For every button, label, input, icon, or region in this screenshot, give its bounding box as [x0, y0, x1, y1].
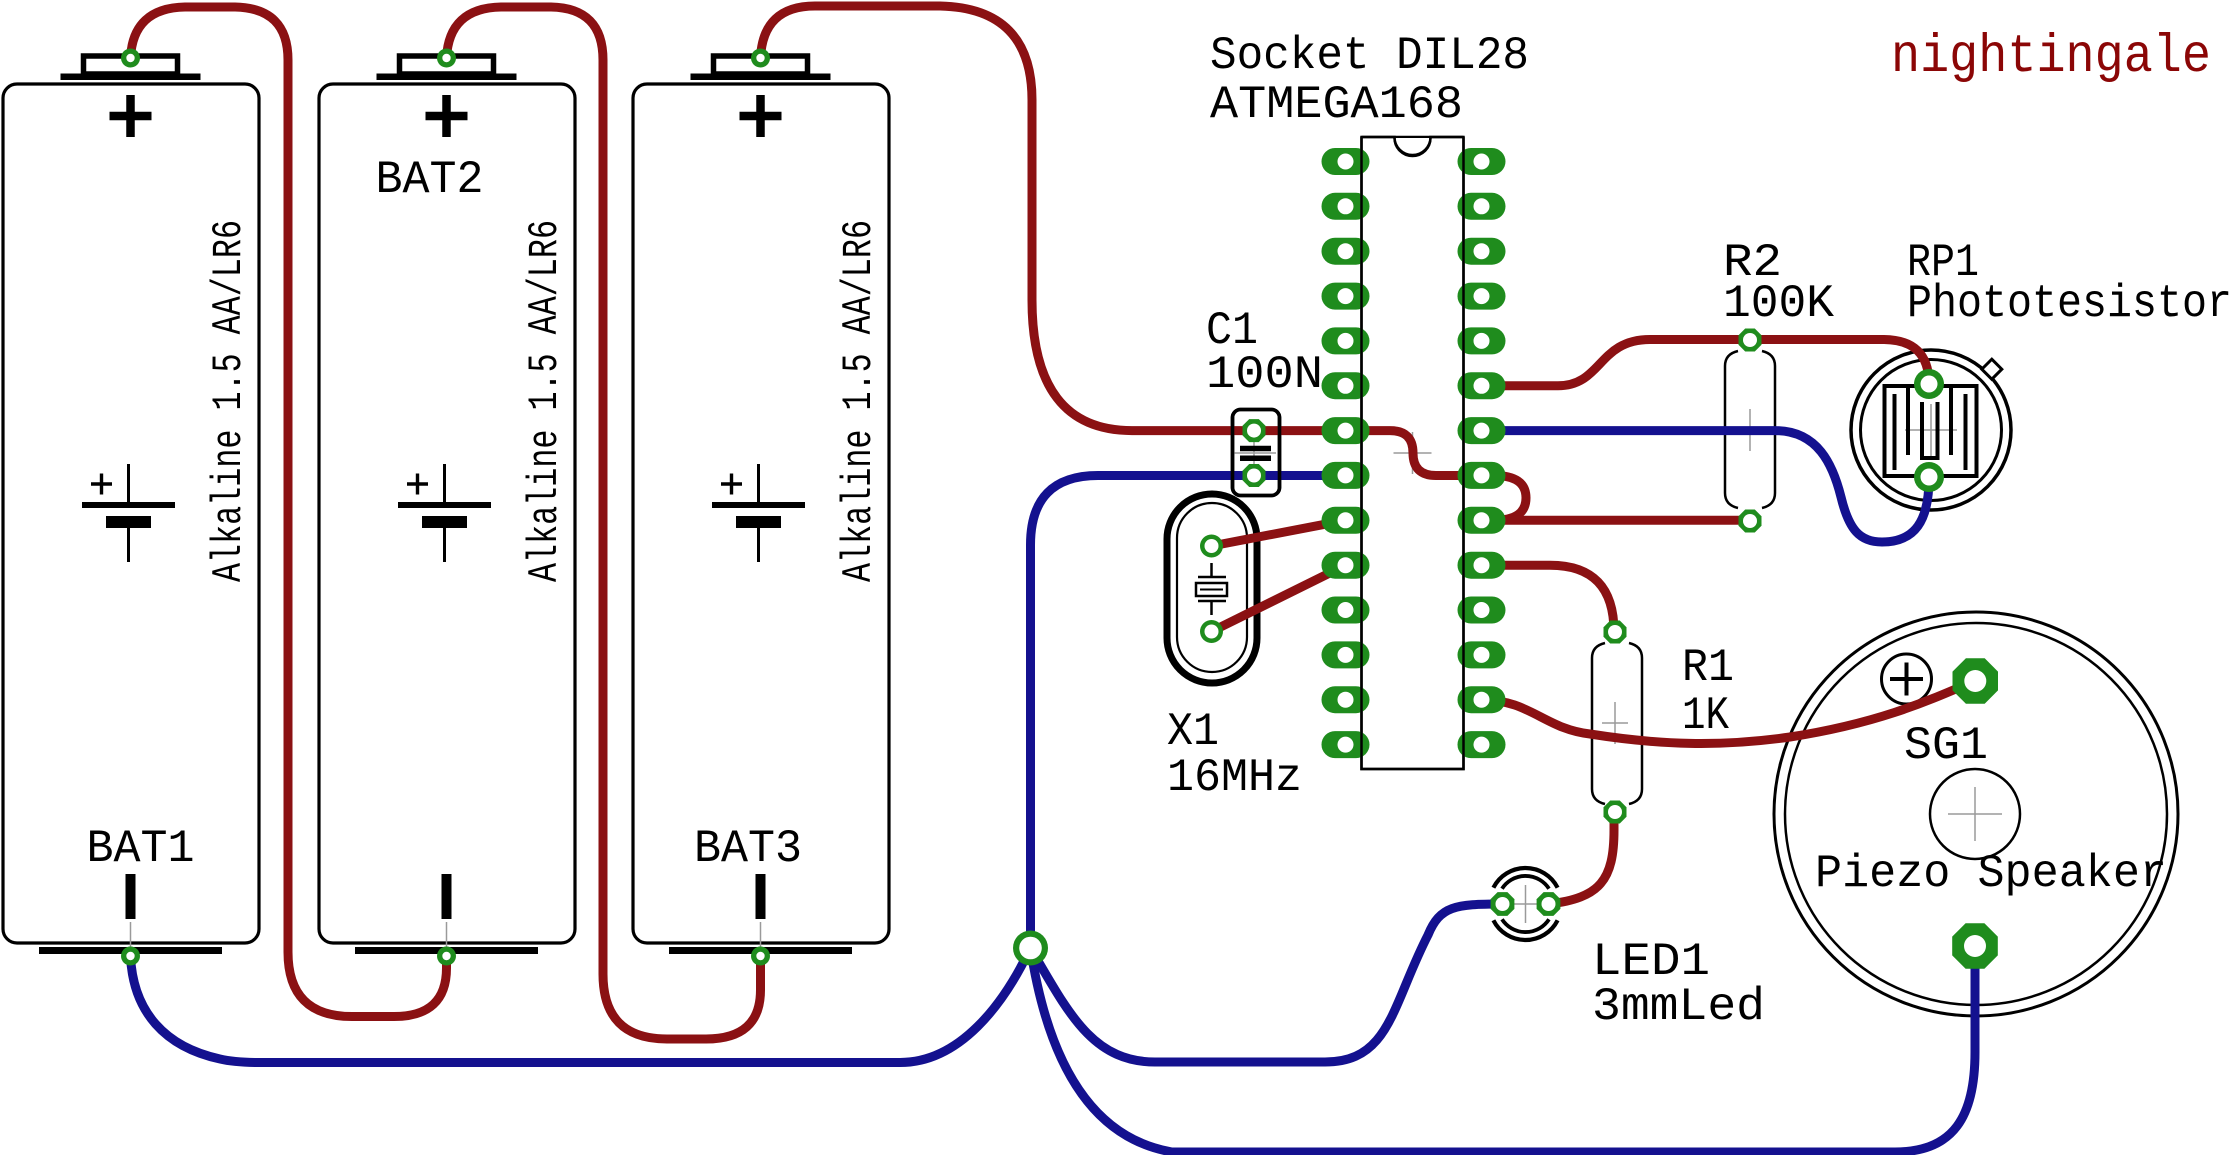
IC socket pin 23 pad — [1458, 372, 1506, 399]
IC socket outline redraw — [1362, 137, 1464, 769]
IC socket pin 28 pad — [1458, 148, 1506, 175]
battery BAT1 minus mark — [126, 874, 136, 919]
battery BAT3 body — [633, 84, 889, 943]
IC socket notch — [1395, 138, 1431, 156]
IC socket pin 19 pad — [1458, 552, 1506, 579]
resistor R2 body brackets — [1725, 351, 1738, 508]
battery BAT2 top cap bar — [377, 74, 517, 81]
pad X1 bottom — [1200, 620, 1223, 643]
svg-text:Piezo Speaker: Piezo Speaker — [1815, 848, 2167, 900]
pad RP1 top — [1914, 369, 1944, 399]
svg-text:Phototesistor: Phototesistor — [1907, 278, 2232, 330]
pad C1 top — [1243, 419, 1266, 442]
svg-text:Socket DIL28: Socket DIL28 — [1210, 30, 1529, 82]
wire red BAT3+ to C1/IC pin7 — [761, 6, 1482, 476]
svg-text:BAT3: BAT3 — [694, 823, 802, 875]
photoresistor RP1 outer circle — [1851, 350, 2011, 510]
battery BAT1 plus mark — [110, 95, 152, 137]
IC socket pin 6 pad — [1322, 372, 1370, 399]
wire red IC to R2 top — [1482, 340, 1751, 386]
pad speaker minus — [1952, 923, 1998, 969]
pad X1 top — [1200, 535, 1223, 558]
svg-text:SG1: SG1 — [1904, 720, 1988, 772]
IC socket pin 5 pad — [1322, 327, 1370, 354]
svg-text:100K: 100K — [1723, 278, 1834, 330]
capacitor C1 plates — [1240, 449, 1271, 459]
IC socket pin 25 pad — [1458, 283, 1506, 310]
speaker SG1 outer circle — [1774, 612, 2178, 1016]
svg-text:X1: X1 — [1167, 706, 1219, 758]
IC socket pin 26 pad — [1458, 238, 1506, 265]
IC socket pin 3 pad — [1322, 238, 1370, 265]
wire blue node to LED1 left — [1031, 904, 1503, 1062]
pad BAT2- — [437, 947, 456, 966]
pad BAT1- — [121, 947, 140, 966]
pad BAT3+ — [751, 49, 770, 68]
battery BAT3 bottom cap bar — [669, 947, 852, 954]
svg-text:Alkaline 1.5 AA/LR6: Alkaline 1.5 AA/LR6 — [521, 220, 569, 582]
svg-text:1K: 1K — [1682, 690, 1729, 742]
IC socket pin 20 pad — [1458, 507, 1506, 534]
svg-text:100N: 100N — [1206, 349, 1323, 401]
pad C1 bottom — [1243, 464, 1266, 487]
battery BAT1 body — [3, 84, 259, 943]
wire red IC right u-turn — [1482, 476, 1527, 521]
IC socket pin 21 pad — [1458, 462, 1506, 489]
wire red IC to R2 bottom — [1482, 516, 1751, 525]
IC socket pin 4 pad — [1322, 283, 1370, 310]
svg-text:R1: R1 — [1682, 642, 1734, 694]
IC socket pin 13 pad — [1322, 686, 1370, 713]
wire red BAT1+ to BAT2- — [131, 7, 447, 1017]
speaker SG1 center circle — [1930, 769, 2020, 859]
svg-text:3mmLed: 3mmLed — [1592, 981, 1765, 1033]
IC socket pin 9 pad — [1322, 507, 1370, 534]
crystal X1 symbol — [1196, 563, 1227, 615]
pad R2 bottom — [1739, 510, 1762, 533]
battery BAT2 cell symbol — [398, 464, 491, 562]
IC socket pin 22 pad — [1458, 417, 1506, 444]
battery BAT3 top terminal — [714, 56, 808, 74]
photoresistor RP1 inner circle — [1861, 360, 2002, 501]
pad R2 top — [1739, 329, 1762, 352]
pad speaker plus — [1953, 658, 1999, 704]
svg-text:Alkaline 1.5 AA/LR6: Alkaline 1.5 AA/LR6 — [205, 220, 253, 582]
crystal X1 inner outline — [1177, 503, 1247, 672]
IC socket pin 10 pad — [1322, 552, 1370, 579]
wire red X1 top to IC pin — [1212, 520, 1346, 546]
IC socket pin 17 pad — [1458, 641, 1506, 668]
IC socket pin 12 pad — [1322, 641, 1370, 668]
pad R1 top — [1604, 621, 1627, 644]
battery BAT3 plus mark — [740, 95, 782, 137]
battery BAT1 cell symbol — [82, 464, 175, 562]
photoresistor RP1 crosshair — [1905, 404, 1957, 456]
pad BAT3- — [751, 947, 770, 966]
wire blue node up to C1 bottom and IC pin — [1031, 476, 1346, 949]
IC socket pin 15 pad — [1458, 731, 1506, 758]
wire blue IC pin to RP1 bottom — [1482, 431, 1930, 542]
svg-text:nightingale: nightingale — [1891, 27, 2211, 88]
IC socket pin 18 pad — [1458, 597, 1506, 624]
photoresistor RP1 tab — [1982, 359, 2002, 379]
speaker SG1 plus circle — [1882, 654, 1932, 704]
IC socket pin 11 pad — [1322, 597, 1370, 624]
svg-text:Alkaline 1.5 AA/LR6: Alkaline 1.5 AA/LR6 — [835, 220, 883, 582]
IC socket pin 27 pad — [1458, 193, 1506, 220]
photoresistor RP1 serpentine — [1885, 386, 1977, 476]
battery BAT3 crosshair bottom — [760, 922, 762, 952]
IC socket pin 14 pad — [1322, 731, 1370, 758]
LED1 crosshair — [1508, 885, 1544, 923]
IC socket pin 24 pad — [1458, 327, 1506, 354]
pad BAT1+ — [121, 49, 140, 68]
wire blue BAT1- to node — [131, 948, 1031, 1063]
pad RP1 bottom — [1914, 462, 1944, 492]
svg-text:BAT2: BAT2 — [376, 154, 484, 206]
capacitor C1 body — [1233, 410, 1280, 496]
wire red R2 top to RP1 top — [1750, 340, 1929, 385]
battery BAT2 bottom cap bar — [355, 947, 538, 954]
wire red IC to R1 top — [1482, 565, 1615, 632]
battery BAT3 cell symbol — [712, 464, 805, 562]
IC socket pin 7 pad — [1322, 417, 1370, 444]
battery BAT2 minus mark — [442, 874, 452, 919]
pad R1 bottom — [1604, 801, 1627, 824]
svg-text:16MHz: 16MHz — [1167, 752, 1302, 804]
capacitor C1 outline redraw — [1233, 410, 1280, 496]
battery BAT2 top terminal — [400, 56, 494, 74]
IC socket pin 16 pad — [1458, 686, 1506, 713]
battery BAT1 top terminal — [84, 56, 178, 74]
IC socket pin 2 pad — [1322, 193, 1370, 220]
speaker SG1 inner circle — [1785, 623, 2167, 1005]
battery BAT2 crosshair bottom — [446, 922, 448, 952]
battery BAT2 body — [319, 84, 575, 943]
IC socket U1 DIL28 body — [1362, 137, 1464, 769]
LED1 body arcs — [1493, 868, 1557, 940]
IC socket pin 8 pad — [1322, 462, 1370, 489]
battery BAT1 top cap bar — [61, 74, 201, 81]
IC center crosshair — [1394, 432, 1432, 474]
node junction — [1013, 931, 1048, 966]
wire red R1 bottom to LED1 — [1549, 812, 1614, 904]
IC socket pin 1 pad — [1322, 148, 1370, 175]
battery BAT1 crosshair bottom — [130, 922, 132, 952]
resistor R2 crosshair — [1737, 409, 1763, 451]
resistor R1 crosshair — [1602, 702, 1628, 744]
battery BAT1 bottom cap bar — [39, 947, 222, 954]
svg-text:ATMEGA168: ATMEGA168 — [1210, 79, 1463, 131]
pad LED1 right — [1537, 892, 1561, 916]
battery BAT3 top cap bar — [691, 74, 831, 81]
pad BAT2+ — [437, 49, 456, 68]
battery BAT2 plus mark — [426, 95, 468, 137]
resistor R1 body brackets — [1592, 643, 1605, 804]
svg-text:BAT1: BAT1 — [87, 823, 195, 875]
wire red IC to speaker plus — [1482, 681, 1976, 744]
wire red X1 bottom to IC pin — [1212, 565, 1346, 631]
crystal X1 outer body — [1167, 494, 1257, 683]
wire blue node to speaker minus — [1031, 946, 1976, 1152]
battery BAT3 minus mark — [756, 874, 766, 919]
wire red BAT2+ to BAT3- — [447, 7, 761, 1039]
pad LED1 left — [1491, 892, 1515, 916]
capacitor C1 crosshair — [1232, 431, 1276, 475]
